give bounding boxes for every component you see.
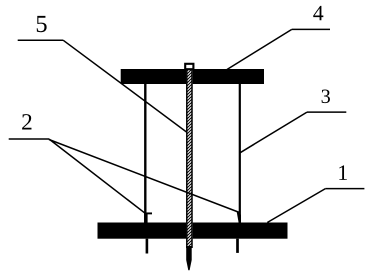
underline of label 3: [307, 111, 346, 113]
right leg (part 3/2): [239, 84, 241, 223]
label 2: [22, 114, 31, 129]
threaded rod shaft (part 5) white body: [186, 64, 193, 248]
left leg (part 2): [144, 84, 146, 223]
left leg lower thickening: [144, 213, 148, 223]
tick at left leg junction: [145, 212, 153, 214]
threaded rod right outline: [191, 64, 193, 248]
label 5: [37, 16, 47, 32]
underline of label 4: [292, 28, 330, 30]
right pin below base: [236, 239, 239, 253]
leader line b to label 2 (right leg): [49, 140, 240, 213]
threaded rod left outline: [186, 64, 188, 248]
threaded rod hatch: [188, 66, 192, 247]
leader line a to label 2 (left leg): [49, 139, 145, 213]
left pin below base: [146, 239, 149, 254]
underline of label 5: [18, 39, 63, 41]
leader line to label 5: [63, 40, 186, 132]
leader line to label 4: [227, 29, 292, 69]
threaded rod top cap: [185, 64, 193, 69]
threaded rod solid tip: [186, 246, 192, 270]
label 3: [322, 90, 330, 104]
underline of label 2: [9, 138, 49, 140]
right leg lower thickening: [237, 211, 241, 222]
top flange bar (part 4): [121, 69, 264, 84]
label 1: [339, 165, 347, 180]
label 4: [313, 6, 323, 20]
bottom base bar (part 1): [98, 223, 288, 239]
underline of label 1: [325, 188, 364, 190]
leader line to label 3: [240, 112, 307, 153]
leader line to label 1: [267, 189, 325, 223]
